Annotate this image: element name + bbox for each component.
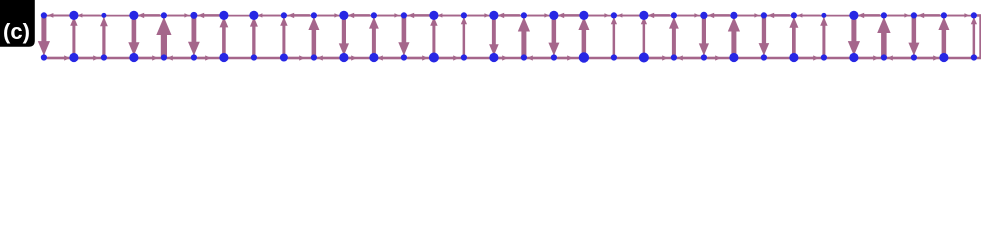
- arrow rung 5 down: [192, 16, 197, 42]
- wire rung 11: [373, 15, 375, 57]
- node top 26: [821, 13, 826, 18]
- node bottom 22: [701, 54, 707, 60]
- node top 7: [249, 11, 258, 20]
- arrow top edge 12 thick L: [413, 14, 430, 17]
- wire rung 7: [253, 15, 255, 57]
- node top 12: [401, 12, 407, 18]
- wire rung 4: [163, 15, 165, 57]
- node top 21: [671, 12, 677, 18]
- arrow bottom rail head at 158 R: [138, 57, 153, 59]
- arrow top edge 23 thin R: [738, 14, 756, 16]
- node bottom 27: [849, 53, 858, 62]
- arrow top edge 21 thin R: [678, 14, 696, 16]
- node bottom 8: [280, 54, 288, 62]
- wire rung 28: [883, 15, 885, 57]
- wire rung 13: [433, 15, 435, 57]
- arrow rung 22 down: [702, 16, 706, 44]
- label box (c): [0, 0, 35, 47]
- arrow rung 25 up: [792, 27, 796, 56]
- node bottom 21: [671, 54, 677, 60]
- node bottom 7: [251, 54, 257, 60]
- arrow top edge 1 thin L: [81, 14, 100, 16]
- arrow rung 14 up: [463, 24, 466, 57]
- arrow rung 26 up: [822, 25, 825, 56]
- arrow bottom rail head at 211 R: [198, 57, 206, 59]
- node bottom 23: [729, 53, 738, 62]
- arrow bottom rail head at 939 R: [918, 57, 934, 59]
- arrow rung 4 up: [161, 34, 167, 56]
- arrow rung 21 up: [672, 28, 676, 57]
- wire rung 23: [733, 15, 735, 57]
- node top 30: [941, 12, 947, 18]
- arrow top edge 10 thick L: [353, 14, 370, 17]
- arrow rung 13 up: [432, 25, 435, 56]
- node bottom 0: [41, 54, 47, 60]
- wire right edge partial rung: [979, 15, 981, 58]
- wire rung 30: [943, 15, 945, 57]
- wire top rail: [44, 15, 981, 17]
- arrow rung 20 up: [643, 24, 646, 57]
- node top 6: [219, 11, 228, 20]
- arrow top edge 22 thick L: [713, 14, 730, 17]
- arrow top edge 19 thin L: [621, 14, 640, 16]
- node top 10: [339, 11, 348, 20]
- arrow rung 2 up: [102, 26, 105, 57]
- arrow top edge 15 thick L: [503, 14, 520, 17]
- wire rung 14: [463, 15, 465, 57]
- arrow bottom rail head at 508 R: [498, 57, 503, 59]
- arrow rung 19 up: [613, 24, 616, 57]
- node top 2: [101, 13, 106, 18]
- arrow top edge 18 thin R: [588, 14, 606, 16]
- arrow top edge 9 thin R: [318, 14, 336, 16]
- arrow rung 9 up: [312, 29, 317, 56]
- arrow rung 29 down: [912, 16, 917, 43]
- arrow bottom rail head at 357 R: [348, 57, 352, 59]
- arrow top edge 3 thick L: [143, 14, 160, 17]
- node bottom 18: [579, 52, 589, 62]
- wire rung 24: [763, 15, 765, 57]
- arrow bottom rail head at 668 R: [648, 57, 663, 59]
- wire rung 3: [133, 15, 135, 57]
- arrow top edge 28 thin R: [888, 14, 906, 16]
- node bottom 28: [881, 54, 887, 60]
- node top 19: [611, 12, 617, 18]
- node top 3: [129, 11, 138, 20]
- node top 4: [161, 12, 167, 18]
- node bottom 10: [339, 53, 348, 62]
- wire rung 2: [103, 15, 105, 57]
- node top 17: [549, 11, 558, 20]
- arrow rung 1 up: [72, 25, 75, 56]
- arrow rung 31 up: [973, 24, 976, 57]
- node bottom 16: [521, 54, 527, 60]
- wire rung 15: [493, 15, 495, 57]
- node bottom 26: [821, 54, 827, 60]
- wire rung 16: [523, 15, 525, 57]
- wire rung 5: [193, 15, 195, 57]
- arrow rung 23 up: [731, 31, 736, 57]
- arrow rung 11 up: [372, 28, 376, 57]
- arrow top edge 25 thin L: [801, 14, 820, 16]
- arrow top edge 0 med L: [52, 14, 70, 16]
- arrow bottom rail head at 527 L: [532, 57, 550, 59]
- arrow top edge 11 thin R: [378, 14, 396, 16]
- node bottom 11: [369, 53, 378, 62]
- node bottom 19: [611, 54, 617, 60]
- wire rung 18: [583, 15, 585, 57]
- node bottom 9: [311, 54, 317, 60]
- arrow rung 6 up: [222, 27, 226, 57]
- wire rung 27: [853, 15, 855, 57]
- node bottom 30: [939, 53, 948, 62]
- arrow bottom rail head at 573 R: [558, 57, 568, 59]
- arrow rung 0 down: [41, 16, 46, 42]
- node top 31: [971, 12, 977, 18]
- node top 0: [41, 12, 47, 18]
- node bottom 15: [489, 53, 498, 62]
- arrow bottom rail head at 677 L: [682, 57, 700, 59]
- node top 14: [461, 12, 467, 18]
- node top 20: [639, 11, 648, 20]
- wire rung 17: [553, 15, 555, 57]
- arrow top edge 16 thin R: [528, 14, 546, 16]
- node bottom 31: [971, 54, 977, 60]
- node bottom 2: [101, 54, 107, 60]
- wire rung 12: [403, 15, 405, 57]
- wire rung 25: [793, 15, 795, 57]
- arrow bottom rail head at 887 L: [892, 57, 910, 59]
- node bottom 6: [219, 53, 228, 62]
- arrow bottom rail head at 70 R: [48, 57, 65, 59]
- arrow bottom rail head at 317 L: [322, 57, 340, 59]
- arrow bottom rail head at 721 R: [708, 57, 716, 59]
- arrow top edge 17 thick L: [563, 14, 580, 17]
- svg-text:(c): (c): [3, 19, 30, 44]
- arrow rung 7 up: [252, 26, 255, 57]
- wire rung 0: [43, 15, 45, 57]
- node bottom 29: [911, 54, 917, 60]
- node top 25: [791, 12, 797, 18]
- arrow rung 12 down: [402, 16, 407, 43]
- node bottom 4: [161, 54, 167, 60]
- node top 13: [429, 11, 438, 20]
- arrow rung 16 up: [521, 31, 526, 57]
- node bottom 14: [461, 54, 467, 60]
- node top 23: [730, 12, 737, 19]
- wire rung 21: [673, 15, 675, 57]
- node top 9: [311, 12, 317, 18]
- arrow rung 28 up: [881, 32, 887, 56]
- node top 15: [489, 11, 498, 20]
- arrow top edge 5 thick L: [203, 14, 220, 17]
- arrow top edge 27 thick L: [863, 14, 880, 17]
- node bottom 1: [69, 53, 78, 62]
- arrow bottom rail head at 99 R: [78, 57, 94, 59]
- node top 22: [700, 12, 707, 19]
- wire rung 29: [913, 15, 915, 57]
- arrow top edge 4 thin R: [168, 14, 186, 16]
- arrow top edge 7 thin L: [261, 14, 280, 16]
- node bottom 25: [789, 53, 798, 62]
- node top 29: [911, 12, 917, 18]
- node top 8: [281, 12, 287, 18]
- node bottom 3: [129, 53, 138, 62]
- arrow rung 18 up: [582, 29, 587, 56]
- wire rung 31: [973, 15, 975, 57]
- node bottom 5: [191, 54, 197, 60]
- node bottom 24: [761, 54, 767, 60]
- node top 16: [521, 12, 527, 18]
- arrow bottom rail head at 819 R: [798, 57, 814, 59]
- arrow top edge 20 thick L: [653, 14, 670, 17]
- arrow top edge 8 thick L: [293, 14, 310, 17]
- arrow rung 24 down: [762, 16, 766, 44]
- arrow rung 8 up: [282, 25, 285, 56]
- arrow rung 17 down: [552, 16, 557, 43]
- arrow stub top right: [977, 14, 981, 17]
- wire rung 10: [343, 15, 345, 57]
- node top 28: [881, 12, 887, 18]
- wire rung 9: [313, 15, 315, 57]
- arrow top edge 24 thick L: [773, 14, 790, 17]
- arrow top edge 13 thin L: [441, 14, 460, 16]
- arrow bottom rail head at 377 L: [382, 57, 400, 59]
- node top 1: [69, 11, 78, 20]
- node bottom 20: [639, 53, 649, 63]
- node bottom 13: [429, 53, 439, 63]
- arrow bottom rail head at 167 L: [172, 57, 190, 59]
- wire rung 20: [643, 15, 645, 57]
- arrow top edge 30 thin R: [948, 14, 966, 16]
- node top 11: [371, 12, 377, 18]
- wire rung 1: [73, 15, 75, 57]
- arrow rung 30 up: [942, 29, 947, 56]
- node bottom 12: [401, 54, 407, 60]
- wire rung 26: [823, 15, 825, 57]
- wire rung 19: [613, 15, 615, 57]
- arrow top edge 14 thin R: [468, 14, 486, 16]
- arrow top edge 29 thick L: [923, 14, 940, 17]
- arrow bottom rail head at 459 R: [438, 57, 454, 59]
- node bottom 17: [551, 54, 557, 60]
- node top 18: [579, 11, 588, 20]
- node top 27: [849, 11, 858, 20]
- node top 24: [761, 12, 767, 18]
- arrow rung 15 down: [492, 16, 496, 45]
- arrow bottom rail head at 305 R: [288, 57, 300, 59]
- wire rung 6: [223, 15, 225, 57]
- arrow rung 10 down: [342, 16, 346, 44]
- arrow rung 27 down: [851, 16, 856, 42]
- arrow bottom rail head at 428 R: [408, 57, 423, 59]
- wire rung 8: [283, 15, 285, 57]
- arrow rung 3 down: [132, 16, 137, 43]
- wire rung 22: [703, 15, 705, 57]
- wire bottom rail: [44, 57, 981, 60]
- arrow bottom rail head at 879 R: [858, 57, 874, 59]
- node top 5: [190, 12, 197, 19]
